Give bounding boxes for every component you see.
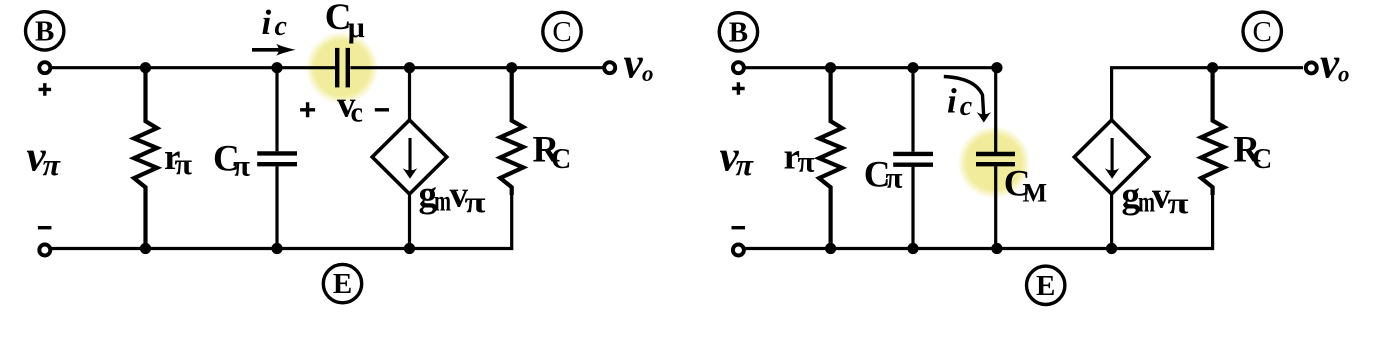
svg-text:π: π [1168, 187, 1190, 220]
svg-text:C: C [551, 144, 571, 175]
svg-text:μ: μ [348, 11, 365, 44]
svg-text:v: v [1320, 40, 1340, 87]
svg-text:c: c [351, 98, 363, 129]
svg-text:B: B [729, 17, 748, 49]
svg-text:c: c [275, 11, 288, 42]
svg-text:M: M [1023, 179, 1048, 208]
svg-text:o: o [1338, 62, 1350, 87]
svg-text:π: π [465, 186, 487, 219]
svg-text:π: π [886, 161, 904, 194]
svg-text:π: π [736, 147, 755, 182]
svg-text:C: C [1253, 16, 1272, 48]
svg-text:C: C [552, 16, 571, 48]
svg-text:o: o [642, 61, 654, 86]
svg-text:c: c [960, 91, 973, 122]
svg-text:B: B [35, 15, 54, 47]
svg-text:π: π [43, 147, 62, 182]
svg-text:π: π [798, 146, 816, 179]
svg-text:C: C [1252, 144, 1272, 175]
svg-text:v: v [624, 41, 644, 88]
svg-text:E: E [1036, 270, 1055, 302]
svg-text:m: m [434, 185, 451, 218]
svg-text:i: i [262, 3, 272, 42]
svg-text:π: π [175, 148, 193, 181]
svg-text:π: π [233, 150, 251, 183]
svg-text:E: E [333, 268, 352, 300]
svg-text:i: i [947, 81, 957, 120]
